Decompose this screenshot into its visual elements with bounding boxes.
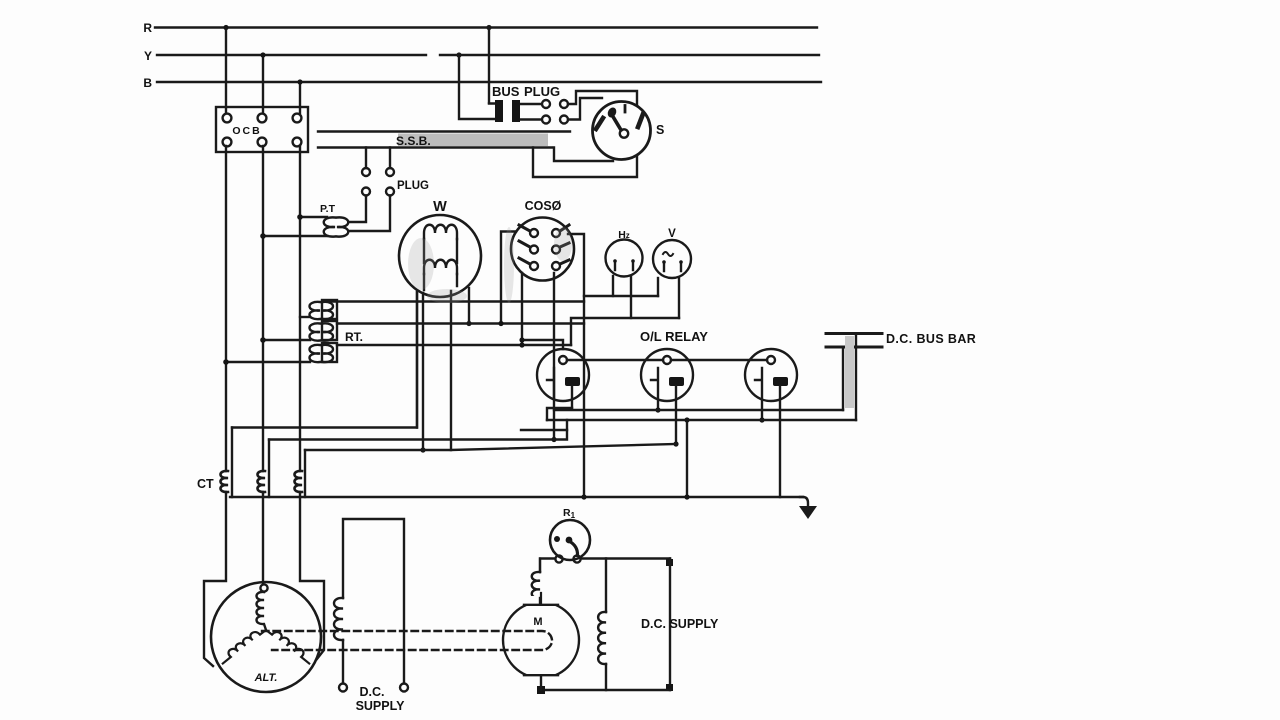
bus Y phase line <box>157 54 819 56</box>
meter W wattmeter <box>399 199 481 297</box>
dc source left D.C. SUPPLY <box>334 519 408 713</box>
wire CT1 secondary feeder H428 <box>232 292 417 428</box>
svg-text:CT: CT <box>197 477 214 491</box>
wire voltmeter link L296 <box>584 295 658 297</box>
wire PT primary to B phase <box>297 214 327 220</box>
wire RT row 2 to Y phase <box>260 337 310 343</box>
wire CT2 secondary drop <box>268 440 270 498</box>
motor M <box>498 559 584 691</box>
wire S.S.B. to synchroscope bottom <box>554 148 613 162</box>
wire W meter lead 4 <box>450 291 452 450</box>
inductor motor field winding <box>532 572 540 604</box>
wire B bus to OCB <box>297 79 302 113</box>
svg-text:COSØ: COSØ <box>525 199 562 213</box>
wire CT common return line <box>230 494 803 499</box>
wire plug to PT secondary <box>350 196 390 232</box>
svg-text:D.C. BUS BAR: D.C. BUS BAR <box>886 332 976 346</box>
svg-text:RT.: RT. <box>345 330 363 344</box>
svg-text:ALT.: ALT. <box>254 672 278 684</box>
relay 1 overload <box>537 349 589 408</box>
current transformer CT3 <box>295 471 303 492</box>
wire RT row2 feeder L323 <box>337 322 584 324</box>
wire W meter lead 1 <box>416 292 418 428</box>
wire DC supply right branch <box>666 559 673 692</box>
wire OCB phase Y down to alternator <box>262 146 264 584</box>
resistor starting resistance branch <box>598 559 606 691</box>
wire CT2 secondary feeder H440 <box>269 420 567 440</box>
meter V voltmeter <box>653 228 691 278</box>
relay 3 overload <box>745 349 797 497</box>
wire relay bus H410 <box>554 409 843 411</box>
wire COS meter lead 2 <box>519 273 524 348</box>
rheostat R1 <box>550 507 590 563</box>
svg-text:OCB: OCB <box>232 125 261 137</box>
coupling shaft dashed line <box>262 631 552 650</box>
plug PLUG (synchronizing plug, middle) <box>362 148 429 196</box>
meter S synchroscope <box>593 102 665 160</box>
wire RT row3 feeder L345 <box>337 344 571 346</box>
wire link H430 <box>521 429 567 431</box>
svg-text:BUS: BUS <box>492 84 520 99</box>
wire OCB phase B down to alternator <box>300 146 324 659</box>
circuit breaker OCB <box>216 107 308 152</box>
meter COS-phi power factor meter <box>511 199 574 281</box>
wire R1 to motor field <box>540 559 555 573</box>
rheostat RT row 2 <box>310 321 364 344</box>
wire relay bus H420 <box>547 419 856 421</box>
wire COS to relay 1 top <box>519 337 563 349</box>
wire RT row1 feeder L300 <box>329 300 584 302</box>
svg-text:SUPPLY: SUPPLY <box>356 699 406 713</box>
ground earth arrow <box>799 497 817 519</box>
svg-text:S: S <box>656 123 664 137</box>
svg-text:D.C.: D.C. <box>360 685 385 699</box>
svg-text:V: V <box>668 228 676 240</box>
svg-text:M: M <box>533 616 542 628</box>
wire Hz left lead <box>612 276 614 296</box>
current transformer CT1 <box>221 471 229 492</box>
busbar D.C. BUS BAR <box>826 332 976 408</box>
wire DC supply bottom <box>537 686 670 694</box>
wire V right lead <box>678 278 680 318</box>
wire bus plug to synchroscope (inner) <box>568 98 602 120</box>
wire Hz right lead <box>630 276 632 318</box>
wire relay top interconnection <box>567 359 767 361</box>
bus B phase line <box>157 81 821 83</box>
bus R phase line <box>155 26 817 28</box>
svg-text:B: B <box>143 76 152 90</box>
wire COS meter left box lead <box>498 232 516 327</box>
relay 2 overload <box>641 349 693 447</box>
svg-text:S.S.B.: S.S.B. <box>396 134 431 148</box>
svg-text:Y: Y <box>144 49 152 63</box>
svg-text:R: R <box>143 21 152 35</box>
meter Hz frequency meter <box>606 229 643 277</box>
svg-text:D.C. SUPPLY: D.C. SUPPLY <box>641 617 719 631</box>
svg-text:O/L RELAY: O/L RELAY <box>640 329 708 344</box>
wire W meter lead 3 <box>466 288 471 326</box>
wire PT primary to Y phase <box>260 233 327 239</box>
wire R1 to DC supply right <box>581 559 673 567</box>
wire Y bus to OCB <box>260 52 265 113</box>
plug BUS PLUG (top, to synchroscope) <box>456 25 568 124</box>
wire CT3 secondary feeder H450 <box>305 444 676 450</box>
alternator ALT <box>211 582 321 692</box>
wire OCB phase R down to alternator <box>204 146 226 666</box>
current transformer CT2 <box>258 471 266 492</box>
svg-text:W: W <box>433 199 447 215</box>
wire bus plug to synchroscope box <box>533 91 637 177</box>
wire CT1 secondary drop <box>231 428 233 498</box>
rheostat RT row 3 <box>310 343 338 362</box>
wire W meter lead 2 <box>420 293 425 453</box>
wire DC bus positive drop <box>855 334 857 421</box>
transformer PT (potential transformer) <box>320 203 348 237</box>
wire trip drop at 687 <box>684 417 689 497</box>
wire RT row 3 to R phase <box>223 359 310 365</box>
wire CT3 secondary drop <box>304 450 306 497</box>
wire relay1 right jog to H420 <box>547 408 572 420</box>
wire V left lead <box>657 278 659 296</box>
svg-text:P.T: P.T <box>320 203 336 215</box>
svg-text:PLUG: PLUG <box>397 180 429 192</box>
svg-text:PLUG: PLUG <box>524 84 560 99</box>
wire R bus to OCB <box>223 25 228 113</box>
wire DC bus negative drop <box>842 347 844 410</box>
synchronizing bus bar S.S.B. <box>318 132 570 149</box>
rheostat RT row 1 <box>300 300 337 319</box>
wire motor top lead <box>539 598 541 604</box>
wire COS meter lead 3 <box>551 273 556 442</box>
wire link L318 <box>571 318 679 345</box>
wire COS meter right box lead, drops to CT common <box>568 234 584 497</box>
